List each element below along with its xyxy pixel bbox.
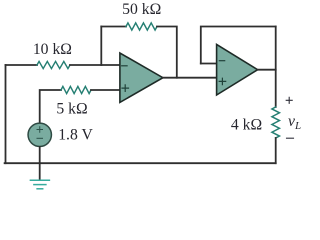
ground bbox=[30, 163, 49, 189]
wire feedback left vertical at node A bbox=[100, 27, 102, 66]
wire R1 to op-amp U1 inverting input bbox=[70, 64, 120, 66]
wire U1 output to U2 noninverting input bbox=[163, 77, 217, 79]
voltage source V1 1.8 V bbox=[28, 123, 51, 146]
resistor R4 4 kOhm bbox=[272, 107, 280, 138]
label plus of vL bbox=[286, 97, 292, 103]
svg-text:5 kΩ: 5 kΩ bbox=[56, 100, 87, 117]
svg-text:4 kΩ: 4 kΩ bbox=[231, 117, 262, 134]
wire to U2 inverting input bbox=[201, 63, 217, 65]
op-amp U2 bbox=[217, 44, 258, 95]
wire U2 feedback loop top bbox=[201, 27, 276, 64]
label minus of vL bbox=[287, 137, 294, 139]
wire bottom rail bbox=[5, 162, 276, 164]
svg-text:1.8 V: 1.8 V bbox=[58, 127, 93, 144]
svg-text:vL: vL bbox=[288, 113, 301, 132]
svg-text:50 kΩ: 50 kΩ bbox=[122, 1, 161, 18]
svg-text:10 kΩ: 10 kΩ bbox=[33, 41, 72, 58]
resistor R3 5 kOhm bbox=[61, 86, 91, 93]
wire source column to R3 bbox=[40, 90, 61, 123]
resistor R2 50 kOhm bbox=[126, 23, 157, 30]
wire feedback top left segment bbox=[101, 26, 126, 28]
wire left rail bbox=[5, 65, 7, 163]
op-amp U1 bbox=[120, 53, 163, 102]
wire R4 bottom lead bbox=[275, 138, 277, 163]
resistor R1 10 kOhm bbox=[37, 61, 70, 68]
wire U2 feedback right vertical bbox=[275, 27, 277, 108]
wire feedback top right segment and right vertical bbox=[157, 27, 177, 78]
wire R3 to op-amp U1 noninverting input bbox=[91, 89, 120, 91]
wire U2 output bbox=[258, 69, 276, 71]
wire input to R1 bbox=[6, 64, 38, 66]
wire source bottom lead bbox=[39, 147, 41, 163]
